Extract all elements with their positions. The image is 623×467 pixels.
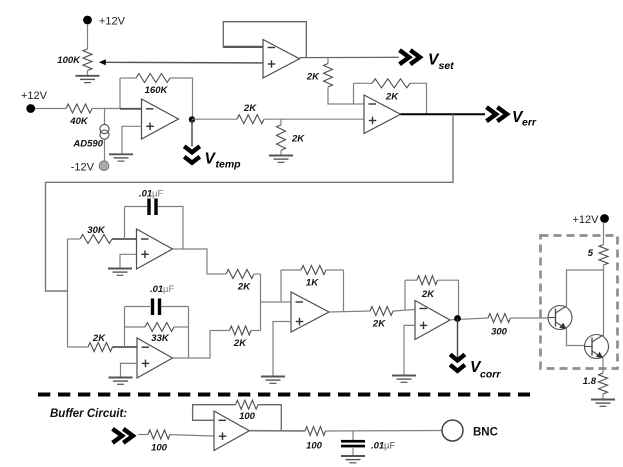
svg-text:µF: µF [163, 284, 174, 295]
svg-text:2K: 2K [291, 134, 305, 145]
wire U5 - node up to feedback [124, 307, 126, 348]
wire cap feedback left (U5) [125, 306, 151, 308]
svg-text:temp: temp [216, 159, 242, 171]
wire - node into U_err [354, 103, 365, 105]
resistor 300 (base drive) [488, 314, 511, 338]
wire AD590 to -12V terminal [104, 139, 106, 161]
wire +12V to 40K [35, 108, 66, 110]
svg-text:+12V: +12V [573, 214, 600, 226]
wire Q1 emitter to Q2 base [567, 329, 585, 346]
svg-text:2K: 2K [233, 338, 247, 349]
ground (U4 + input) [108, 269, 132, 276]
resistor 2K (V_set divider, vertical) [306, 64, 333, 88]
op-amp U8 (buffer) [214, 411, 249, 451]
wire branch to 30K [68, 238, 81, 240]
svg-text:.01: .01 [139, 189, 152, 200]
wire Q1 collector branch [567, 270, 604, 306]
label V_err [512, 109, 537, 129]
connector BNC [442, 420, 463, 441]
svg-text:5: 5 [588, 248, 594, 259]
label V_set [428, 52, 454, 73]
svg-text:2K: 2K [237, 282, 251, 293]
svg-text:300: 300 [491, 327, 508, 338]
wire feedback left segment [354, 82, 373, 84]
wire Q2 collector to rail [602, 335, 605, 337]
svg-text:40K: 40K [69, 116, 89, 127]
svg-text:µF: µF [152, 189, 163, 200]
ground (U7 + input) [392, 376, 416, 383]
label .01uF (U4) [139, 189, 163, 200]
wire input arrows to 100 [138, 434, 148, 436]
node V_temp output arrows [184, 146, 200, 162]
svg-text:.01: .01 [150, 284, 163, 295]
op-amp U6 (summing amplifier) [291, 292, 329, 332]
dashed box (output stage) [541, 236, 618, 369]
power terminal -12V (gray) [71, 161, 109, 174]
wire 40K to U1 - node [92, 108, 120, 110]
wire U5 + input to ground [121, 363, 138, 377]
wire cap junction down [352, 431, 354, 440]
wire 2K to U_err + input [264, 118, 364, 120]
ground (emitter resistor) [591, 400, 615, 407]
wire 2K feedback left (U7) [405, 279, 417, 281]
transistor Q1 (NPN) [548, 306, 572, 330]
svg-text:100: 100 [239, 411, 256, 422]
wire 1K feedback left [281, 269, 301, 271]
capacitor .01uF (U5 feedback) [151, 299, 161, 316]
wire U4 output to summing node [173, 249, 227, 274]
svg-text:2K: 2K [421, 289, 435, 300]
svg-text:100: 100 [151, 443, 168, 454]
resistor 30K (U4 input) [80, 225, 112, 244]
wire U6 output to 2K [329, 311, 370, 312]
node V_corr output arrows [450, 354, 465, 370]
svg-text:2K: 2K [243, 103, 257, 114]
node U1 output junction [189, 116, 195, 122]
resistor 2K (U7 feedback) [417, 276, 438, 300]
wire 2K to U7 - node [393, 310, 415, 312]
wire 2K to U5 - input [113, 346, 138, 348]
wire U4 - node up to cap feedback [124, 207, 126, 240]
svg-text:µF: µF [384, 441, 395, 452]
power terminal +12V (left, feeds 40K) [21, 90, 48, 113]
wire feedback right down to output (U8) [258, 405, 281, 431]
svg-text:+12V: +12V [21, 90, 48, 102]
node V_set output arrows [400, 50, 420, 64]
capacitor .01uF (U4 feedback) [147, 199, 157, 216]
svg-text:2K: 2K [306, 72, 320, 83]
svg-text:100: 100 [306, 441, 323, 452]
wire cap feedback right (U5) [162, 306, 189, 308]
svg-text:2K: 2K [92, 333, 106, 344]
op-amp U1 (AD590 transimpedance, V_temp) [142, 99, 179, 139]
resistor 2K (U6 to U7) [370, 307, 393, 330]
resistor 5 (collector) [588, 245, 608, 266]
resistor 100 (buffer input) [148, 430, 170, 454]
wire U5 output to summing node [173, 331, 230, 359]
wire U1 + input to ground [122, 126, 142, 154]
wire 100 to BNC [326, 430, 443, 433]
svg-text:2K: 2K [385, 92, 399, 103]
power terminal +12V (top, feeds 100K pot) [83, 16, 126, 28]
power terminal +12V (output stage) [573, 214, 609, 226]
resistor 2K (U_err feedback) [372, 79, 410, 103]
label V_corr [470, 359, 501, 381]
wire summing node vertical [260, 274, 262, 331]
wire U7 output to 300 [450, 318, 488, 320]
svg-text:1.8: 1.8 [583, 376, 597, 387]
wire junction down to AD590 [104, 109, 106, 125]
transistor Q2 (NPN) [585, 335, 609, 359]
svg-text:corr: corr [480, 369, 501, 381]
resistor 100 (U8 feedback) [236, 400, 259, 422]
wire 33K feedback left stub [125, 326, 146, 328]
label V_temp [205, 151, 242, 171]
svg-text:+12V: +12V [99, 16, 126, 28]
wire branch to 2K (U5 input) [68, 346, 89, 348]
wire U8 output to 100 [249, 430, 305, 432]
pot wiper arrow wire to U2 + input [99, 59, 263, 65]
wire 2K divider to ground [280, 150, 282, 155]
wire feedback right segment down to output [410, 83, 427, 114]
wire U1 output to 2K [192, 118, 237, 120]
resistor 40K [66, 104, 92, 127]
wire cap to ground [352, 447, 354, 456]
op-amp U3 (error amplifier V_err) [364, 95, 401, 134]
wire U_err - node up to feedback [353, 83, 355, 104]
wire 30K to U4 - input [112, 238, 142, 240]
wire V_set junction down to 2K [327, 58, 329, 64]
resistor 33K (U5 feedback) [145, 323, 174, 345]
ground (below 100K pot) [76, 76, 100, 83]
svg-text:AD590: AD590 [72, 139, 103, 150]
current source AD590 symbol [100, 124, 109, 139]
wire cap feedback left [125, 206, 148, 208]
op-amp U4 (integrator) [137, 229, 173, 269]
svg-text:Buffer Circuit:: Buffer Circuit: [50, 408, 127, 420]
wire +12V to resistor 5 [603, 222, 605, 245]
wire cap feedback right down to output [158, 207, 183, 250]
dashed separator line [38, 393, 530, 397]
svg-text:BNC: BNC [473, 427, 498, 439]
resistor 2K (U5 output) [230, 326, 252, 349]
wire Q2 emitter down to 1.8 [602, 358, 604, 373]
op-amp U2 (voltage follower for V_set) [263, 40, 300, 79]
wire - node into U1 [120, 108, 142, 110]
label AD590 [72, 139, 103, 150]
wire 33K feedback right + down to output [174, 307, 189, 359]
ground (U1 + input) [109, 154, 133, 161]
svg-text:30K: 30K [87, 225, 106, 236]
op-amp U7 (V_corr output) [415, 301, 450, 340]
wire feedback right segment U1 down to output [170, 78, 193, 120]
ground (U5 + input) [109, 378, 133, 385]
svg-text:33K: 33K [151, 333, 170, 344]
wire U7 - node up to 2K feedback [404, 280, 406, 309]
svg-text:2K: 2K [372, 319, 386, 330]
wire 2K feedback right down to output (U7) [438, 280, 459, 318]
label BNC [473, 427, 498, 439]
wire U6 + input to ground [273, 322, 291, 377]
capacitor .01uF (output filter) [341, 440, 365, 448]
label .01uF (U5) [150, 284, 174, 295]
wire 2K to summing node (bottom) [251, 330, 261, 332]
wire rail down to Q2 collector [603, 265, 605, 337]
wire 1K feedback right down to output [326, 270, 344, 312]
wire U7 + input to ground [404, 325, 415, 375]
svg-text:set: set [439, 60, 455, 72]
wire 300 to Q1 base [511, 317, 549, 319]
wire integrator input branch vertical [67, 239, 69, 347]
wire 100K pot to ground [87, 71, 89, 76]
node U7 output junction [454, 315, 461, 322]
wire 1.8 to ground [602, 394, 604, 399]
ground (2K divider) [269, 156, 293, 163]
wire U6 - node up to 1K feedback [280, 270, 282, 302]
wire feedback left segment U1 [120, 77, 136, 79]
resistor 2K (U5 input) [88, 333, 113, 352]
wire V_temp arrow stem [191, 120, 193, 147]
label Buffer Circuit: [50, 408, 127, 420]
resistor 160K (U1 feedback) [136, 74, 170, 97]
wire U8 feedback (- input loop) [193, 405, 236, 421]
wire U2 feedback (output to - input) [223, 22, 306, 58]
wire 2K to summing node [254, 273, 261, 275]
svg-text:1K: 1K [306, 278, 319, 289]
wire V_err output down-left bus to integrators [46, 114, 454, 291]
wire 2K to U_err - input [328, 87, 354, 104]
wire summing node to U6 - input [261, 301, 292, 303]
svg-text:-12V: -12V [71, 162, 95, 174]
wire V_corr arrow stem [457, 319, 459, 360]
label .01uF (output filter) [371, 441, 395, 452]
wire divider junction down [280, 119, 282, 125]
resistor 1.8 (emitter) [583, 373, 608, 394]
svg-text:160K: 160K [145, 85, 169, 96]
wire U2 output to V_set arrows [300, 56, 399, 58]
wire +12V dot to 100K pot [87, 24, 89, 49]
potentiometer 100K [57, 49, 92, 71]
svg-text:100K: 100K [57, 55, 81, 66]
ground (U6 + input) [261, 377, 285, 384]
svg-text:.01: .01 [371, 441, 384, 452]
wire U_err output (thick) to V_err arrows [401, 113, 486, 115]
resistor 2K (U4 output) [226, 270, 254, 293]
resistor 100 (buffer output) [305, 427, 326, 452]
resistor 1K (U6 feedback) [301, 266, 326, 289]
svg-text:err: err [522, 117, 537, 129]
resistor 2K (divider to ground, vertical) [277, 125, 306, 151]
wire - node up to 160K feedback [119, 78, 121, 109]
node V_err output arrows [487, 107, 507, 121]
wire U4 + input to ground [120, 254, 137, 268]
op-amp U5 (integrator with 33K) [137, 338, 173, 378]
ground (output filter) [341, 456, 365, 463]
node buffer input arrows [113, 429, 133, 443]
resistor 2K (V_temp series) [237, 103, 264, 124]
wire 100 to U8 + input [170, 435, 214, 436]
